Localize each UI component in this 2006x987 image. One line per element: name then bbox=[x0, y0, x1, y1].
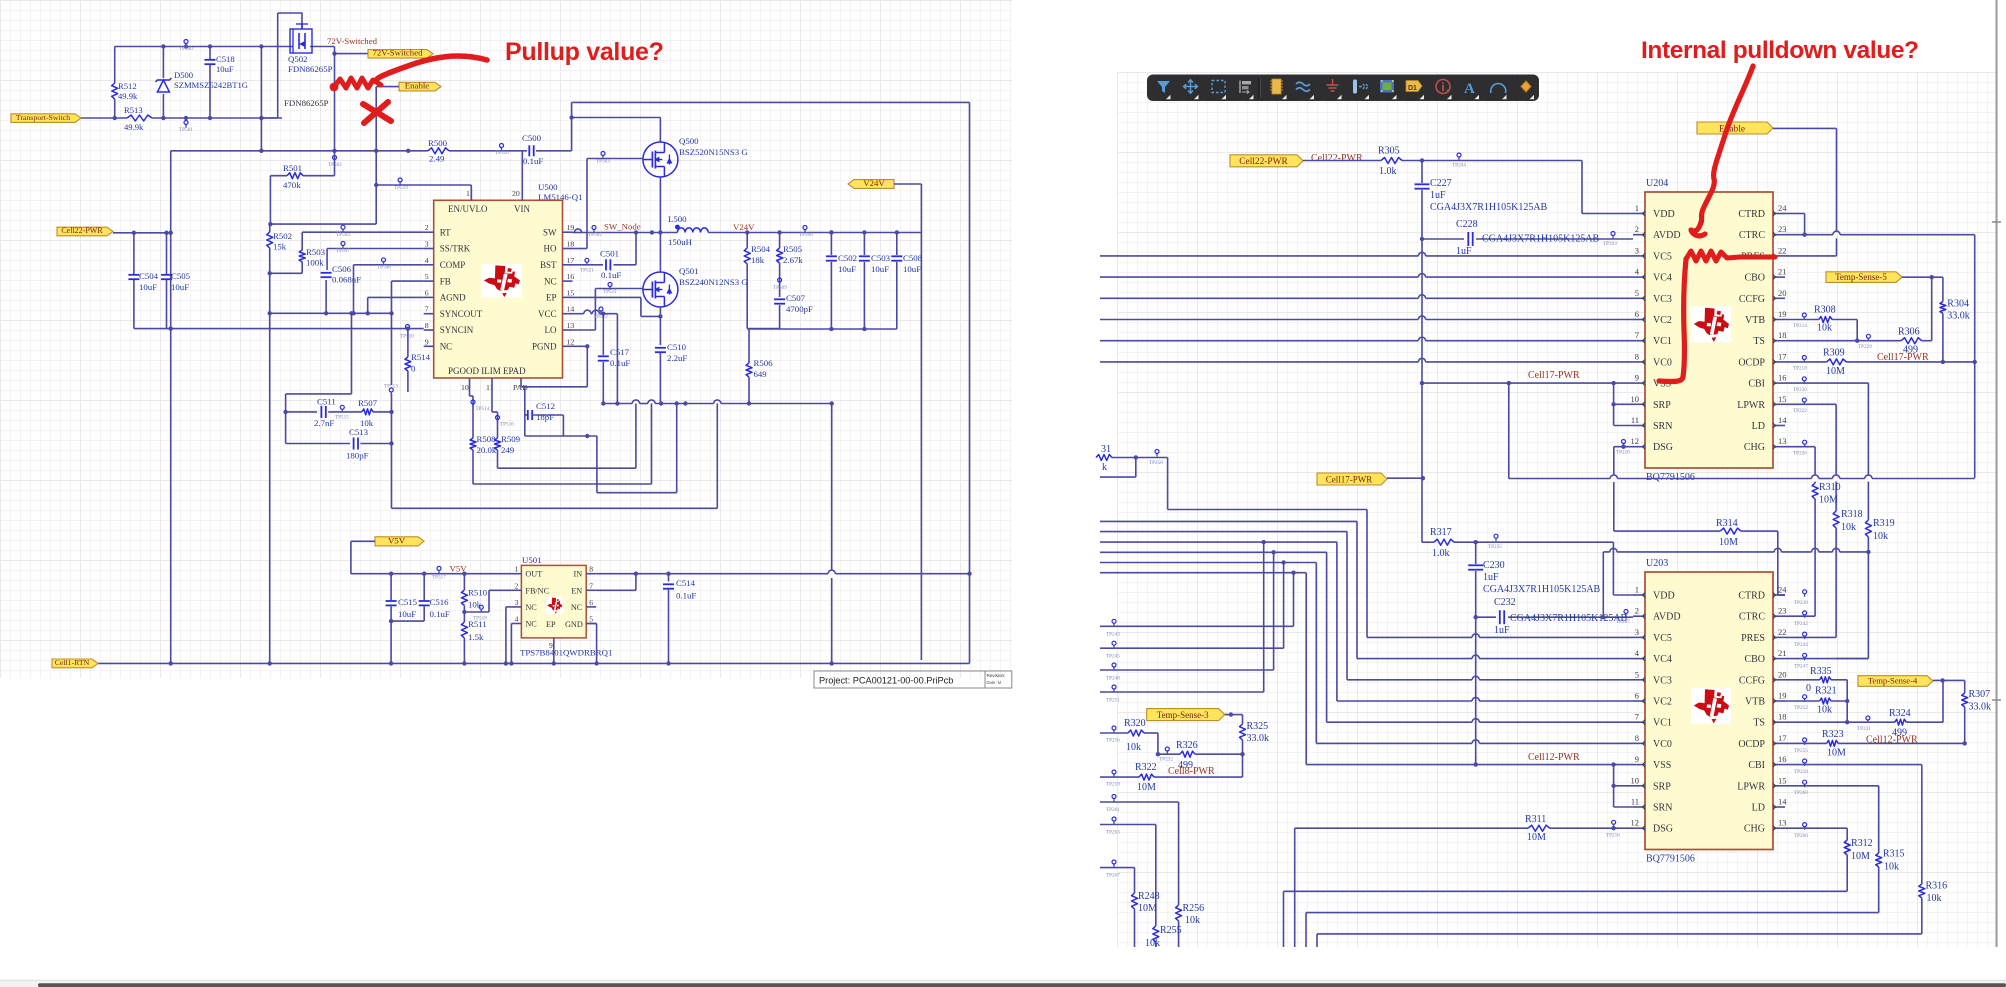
svg-text:C501: C501 bbox=[600, 249, 619, 259]
svg-text:U500: U500 bbox=[538, 182, 558, 192]
svg-text:TP248: TP248 bbox=[1106, 676, 1120, 682]
capacitor C503 bbox=[859, 233, 870, 332]
U500 top pins bbox=[448, 188, 530, 214]
svg-text:C511: C511 bbox=[317, 397, 336, 407]
label R513 bbox=[124, 105, 144, 132]
toolbar icon probe bbox=[1353, 80, 1369, 100]
resistor R505 bbox=[777, 233, 783, 298]
svg-text:5: 5 bbox=[589, 615, 593, 624]
svg-text:L500: L500 bbox=[668, 214, 687, 224]
svg-text:CHG: CHG bbox=[1744, 824, 1765, 835]
resistor R512 bbox=[112, 47, 118, 119]
svg-text:R312: R312 bbox=[1851, 838, 1873, 849]
svg-text:Revision:: Revision: bbox=[987, 673, 1006, 678]
wire AVDD row U203 bbox=[1474, 610, 1634, 624]
svg-text:VC5: VC5 bbox=[1653, 251, 1672, 262]
wire big loop right bbox=[969, 102, 971, 663]
svg-text:DSG: DSG bbox=[1653, 824, 1673, 835]
svg-text:CBO: CBO bbox=[1744, 273, 1765, 284]
title block bbox=[814, 671, 1012, 688]
wire C513 row bbox=[286, 438, 394, 450]
svg-text:8: 8 bbox=[425, 321, 429, 330]
svg-text:Cell8-PWR: Cell8-PWR bbox=[1168, 766, 1215, 777]
wire bottom rail3 bbox=[1317, 934, 1922, 947]
label C500 bbox=[522, 133, 543, 166]
svg-text:Pullup value?: Pullup value? bbox=[505, 38, 664, 66]
svg-text:R335: R335 bbox=[1810, 666, 1832, 677]
svg-text:VC3: VC3 bbox=[1653, 294, 1672, 305]
svg-text:TP250: TP250 bbox=[1149, 460, 1163, 466]
label R511 bbox=[468, 619, 487, 642]
label R307 bbox=[1969, 689, 1992, 713]
testpoint TP251 bbox=[1106, 685, 1120, 704]
capacitor C501 BST bbox=[573, 233, 637, 271]
resistor R323 bbox=[1827, 740, 1838, 746]
resistor R317 bbox=[1434, 539, 1454, 545]
label R502 bbox=[273, 231, 292, 252]
node V24V dots bbox=[745, 230, 899, 234]
svg-text:R502: R502 bbox=[273, 231, 292, 241]
svg-text:OCDP: OCDP bbox=[1738, 739, 1765, 750]
svg-text:SW_Node: SW_Node bbox=[604, 222, 641, 232]
svg-text:BSZ240N12NS3 G: BSZ240N12NS3 G bbox=[679, 277, 748, 287]
svg-text:7: 7 bbox=[425, 305, 429, 314]
resistor R248 bbox=[1132, 893, 1138, 947]
svg-text:VTB: VTB bbox=[1745, 315, 1765, 326]
label R500 bbox=[428, 138, 448, 164]
svg-text:Cell1-RTN: Cell1-RTN bbox=[55, 658, 90, 667]
svg-text:TP261: TP261 bbox=[1106, 807, 1120, 813]
diode D500 zener bbox=[155, 47, 171, 119]
testpoint TP501 bbox=[179, 121, 193, 134]
label R335 bbox=[1806, 666, 1832, 694]
wire cell22 row right bbox=[1303, 160, 1582, 162]
wire EN riser bbox=[596, 572, 638, 591]
svg-text:15k: 15k bbox=[273, 242, 287, 252]
svg-text:FB/NC: FB/NC bbox=[525, 586, 549, 595]
svg-text:16: 16 bbox=[567, 272, 575, 281]
svg-text:17: 17 bbox=[1778, 351, 1787, 361]
annotation text Internal pulldown value? bbox=[1641, 37, 1919, 64]
svg-text:R326: R326 bbox=[1176, 740, 1198, 751]
svg-text:14: 14 bbox=[567, 305, 575, 314]
svg-text:Cell17-PWR: Cell17-PWR bbox=[1326, 474, 1373, 484]
svg-text:R510: R510 bbox=[468, 588, 488, 598]
label C505 bbox=[171, 271, 191, 292]
svg-text:C510: C510 bbox=[667, 342, 687, 352]
svg-text:Project: PCA00121-00-00.PriPc: Project: PCA00121-00-00.PriPcb bbox=[819, 676, 953, 686]
svg-text:RT: RT bbox=[440, 227, 451, 237]
label C504 bbox=[139, 271, 159, 292]
wire PGND row bbox=[573, 344, 590, 348]
testpoint TP256 bbox=[1106, 726, 1120, 744]
net name V24V bbox=[733, 222, 755, 232]
testpoint TP259 bbox=[1106, 770, 1120, 788]
svg-text:1.0k: 1.0k bbox=[1432, 548, 1450, 559]
svg-text:TP517: TP517 bbox=[432, 575, 446, 581]
svg-text:6: 6 bbox=[1635, 309, 1639, 319]
wire nested loop 2 bbox=[473, 404, 652, 485]
wire rtn drops bbox=[171, 313, 270, 663]
svg-text:PGND: PGND bbox=[532, 342, 557, 352]
power flag Temp-Sense-5 bbox=[1826, 272, 1902, 283]
wire x831 drop bbox=[831, 404, 833, 664]
svg-text:R503: R503 bbox=[306, 247, 326, 257]
label R305 bbox=[1378, 146, 1400, 178]
svg-text:R248: R248 bbox=[1138, 891, 1160, 902]
label C227 bbox=[1430, 178, 1548, 213]
U204 TI logo bbox=[1691, 306, 1731, 342]
svg-text:18pF: 18pF bbox=[536, 412, 554, 422]
net name Cell12-PWR TS bbox=[1866, 735, 1918, 746]
svg-text:10k: 10k bbox=[1927, 893, 1942, 904]
label U204 designator bbox=[1646, 178, 1668, 189]
svg-text:CTRD: CTRD bbox=[1738, 591, 1765, 602]
wire x277 gate drop bbox=[277, 47, 279, 119]
wire R503 loop bbox=[268, 232, 424, 275]
svg-text:R315: R315 bbox=[1883, 849, 1905, 860]
svg-text:TP266: TP266 bbox=[1794, 833, 1808, 839]
svg-text:15: 15 bbox=[1778, 775, 1787, 785]
svg-text:10k: 10k bbox=[1817, 705, 1832, 716]
svg-text:8: 8 bbox=[1635, 351, 1639, 361]
svg-text:10k: 10k bbox=[1873, 531, 1888, 542]
svg-text:GND: GND bbox=[565, 620, 583, 629]
label R256 bbox=[1183, 903, 1205, 926]
svg-text:LD: LD bbox=[1752, 421, 1765, 432]
svg-text:BQ7791506: BQ7791506 bbox=[1646, 854, 1695, 865]
svg-text:33.0k: 33.0k bbox=[1247, 733, 1270, 744]
label U500 designator bbox=[538, 182, 582, 202]
svg-text:U203: U203 bbox=[1646, 558, 1668, 569]
svg-text:TP251: TP251 bbox=[1106, 698, 1120, 704]
resistor R322 bbox=[1139, 774, 1154, 780]
label FDN86265P (2nd gate) bbox=[284, 98, 329, 108]
svg-text:24: 24 bbox=[1778, 203, 1787, 213]
svg-text:CGA4J3X7R1H105K125AB: CGA4J3X7R1H105K125AB bbox=[1482, 234, 1600, 245]
svg-text:R311: R311 bbox=[1525, 814, 1546, 825]
label U204 part number bbox=[1646, 472, 1695, 483]
svg-text:SRN: SRN bbox=[1653, 421, 1672, 432]
annotation X mark bbox=[363, 102, 391, 123]
label L500 bbox=[668, 214, 693, 247]
wire Enable drop bbox=[376, 87, 399, 225]
svg-text:R305: R305 bbox=[1378, 146, 1400, 157]
svg-text:10uF: 10uF bbox=[171, 282, 189, 292]
svg-text:7: 7 bbox=[1635, 712, 1639, 722]
wire VSS sense rail bbox=[1509, 475, 1975, 479]
wire AVDD row bbox=[1420, 232, 1633, 246]
svg-text:C227: C227 bbox=[1430, 178, 1452, 189]
svg-text:OCDP: OCDP bbox=[1738, 357, 1765, 368]
svg-text:13: 13 bbox=[1778, 436, 1787, 446]
svg-text:72V-Switched: 72V-Switched bbox=[372, 48, 423, 58]
testpoint TP518 bbox=[473, 605, 487, 621]
testpoint TP226 bbox=[1793, 440, 1807, 456]
U500 bottom pins bbox=[448, 366, 528, 392]
wire CBI row U204 bbox=[1785, 383, 1868, 520]
power flag Transport-Switch bbox=[11, 113, 81, 123]
toolbar icon move bbox=[1184, 80, 1199, 100]
svg-text:Temp-Sense-4: Temp-Sense-4 bbox=[1868, 676, 1918, 686]
testpoint TP514 bbox=[471, 400, 490, 412]
label R501 bbox=[283, 163, 302, 190]
svg-text:CTRC: CTRC bbox=[1739, 612, 1765, 623]
bottom scrollbar bbox=[0, 980, 2006, 987]
svg-text:2.7nF: 2.7nF bbox=[314, 418, 334, 428]
wire EN feed bbox=[374, 183, 471, 200]
testpoint TP267 stub bbox=[1100, 860, 1135, 893]
wire TS row bbox=[1785, 277, 1932, 343]
wire R314 row bbox=[1614, 447, 1785, 595]
svg-text:Internal pulldown value?: Internal pulldown value? bbox=[1641, 37, 1919, 64]
svg-text:Date: M: Date: M bbox=[987, 680, 1002, 685]
svg-text:10M: 10M bbox=[1851, 851, 1870, 862]
svg-text:LM5146-Q1: LM5146-Q1 bbox=[538, 192, 582, 202]
svg-text:1: 1 bbox=[466, 189, 470, 198]
resistor R309 bbox=[1827, 359, 1847, 365]
power flag Cell1-RTN bbox=[52, 658, 98, 668]
testpoint TP507 bbox=[336, 242, 350, 255]
svg-text:C518: C518 bbox=[216, 54, 235, 64]
svg-text:13: 13 bbox=[567, 321, 575, 330]
wire VSS row U203 bbox=[1306, 762, 1633, 766]
capacitor C505 bbox=[161, 233, 172, 329]
testpoint TP231 bbox=[1857, 716, 1871, 732]
svg-text:TP218: TP218 bbox=[1793, 366, 1807, 372]
svg-text:23: 23 bbox=[1778, 606, 1787, 616]
svg-text:1uF: 1uF bbox=[1494, 625, 1510, 636]
power flag V5V bbox=[375, 535, 424, 546]
node R305 junction bbox=[1420, 158, 1424, 162]
wire Q500 source bbox=[659, 177, 661, 233]
label Q502 bbox=[288, 54, 333, 74]
label R509 bbox=[501, 434, 521, 455]
svg-text:R322: R322 bbox=[1135, 762, 1157, 773]
svg-text:TP242: TP242 bbox=[1794, 621, 1808, 627]
svg-text:Cell12-PWR: Cell12-PWR bbox=[1528, 752, 1580, 763]
testpoint TP511 bbox=[603, 283, 617, 296]
svg-text:R514: R514 bbox=[411, 352, 431, 362]
svg-text:31: 31 bbox=[1101, 444, 1111, 455]
svg-text:TP252: TP252 bbox=[1794, 705, 1808, 711]
svg-text:R309: R309 bbox=[1823, 348, 1845, 359]
svg-text:72V-Switched: 72V-Switched bbox=[327, 36, 378, 46]
label R311 bbox=[1525, 814, 1546, 843]
wire cell22 row bbox=[113, 233, 171, 329]
label R317 bbox=[1430, 527, 1452, 559]
svg-text:R308: R308 bbox=[1814, 305, 1836, 316]
testpoint TP250 bbox=[1149, 450, 1163, 467]
resistor R308 bbox=[1819, 317, 1832, 323]
U501 pins bbox=[511, 565, 596, 629]
resistor R320 bbox=[1128, 730, 1144, 736]
label R326 bbox=[1176, 740, 1198, 771]
svg-text:0.1uF: 0.1uF bbox=[430, 609, 450, 619]
svg-text:10: 10 bbox=[1631, 394, 1640, 404]
testpoint TP504 bbox=[336, 225, 350, 238]
svg-text:TP509: TP509 bbox=[773, 285, 787, 291]
svg-text:BSZ520N15NS3 G: BSZ520N15NS3 G bbox=[679, 147, 748, 157]
testpoint TP521 bbox=[580, 258, 594, 273]
resistor R510 bbox=[461, 574, 467, 612]
svg-text:10M: 10M bbox=[1719, 537, 1738, 548]
testpoint TP210 bbox=[1616, 440, 1630, 456]
svg-text:R317: R317 bbox=[1430, 527, 1452, 538]
net name Cell22-PWR bbox=[1311, 153, 1363, 164]
wire AVDD drop U203 bbox=[1475, 617, 1477, 764]
wire CHG U203 bbox=[1785, 828, 1847, 840]
svg-text:TP506: TP506 bbox=[799, 232, 813, 238]
svg-text:R507: R507 bbox=[358, 398, 378, 408]
wire nested loop 3 bbox=[597, 404, 677, 493]
wire x170.7 riser bbox=[169, 149, 264, 235]
annotation vertical stroke bbox=[1659, 259, 1686, 382]
svg-text:10M: 10M bbox=[1826, 366, 1845, 377]
testpoint TP242 bbox=[1794, 611, 1808, 627]
svg-text:TP244: TP244 bbox=[1794, 642, 1808, 648]
svg-text:TP500: TP500 bbox=[179, 46, 193, 52]
toolbar icon sheet part bbox=[1380, 80, 1397, 99]
resistor R324 bbox=[1895, 719, 1906, 725]
svg-text:SW: SW bbox=[543, 227, 557, 237]
label C508 bbox=[903, 253, 923, 274]
left schematic grid background bbox=[0, 0, 1012, 678]
annotation long curve bbox=[1701, 66, 1753, 223]
wire fragment R331 bbox=[1096, 444, 1168, 510]
testpoint TP506 bbox=[799, 226, 813, 239]
wire DSG U204 bbox=[1614, 445, 1633, 449]
svg-text:DSG: DSG bbox=[1653, 442, 1673, 453]
svg-text:2: 2 bbox=[515, 581, 519, 590]
svg-text:C500: C500 bbox=[522, 133, 542, 143]
label R508 bbox=[477, 434, 497, 455]
svg-text:Q501: Q501 bbox=[679, 266, 699, 276]
svg-text:VC3: VC3 bbox=[1653, 675, 1672, 686]
label R506 bbox=[754, 358, 774, 379]
resistor R315 bbox=[1876, 853, 1882, 913]
resistor R316 bbox=[1919, 884, 1925, 934]
wire COMP row bbox=[354, 265, 424, 314]
label R312 bbox=[1851, 838, 1873, 862]
wire AVDD drop x1422 bbox=[1421, 239, 1423, 543]
U203 TI logo bbox=[1691, 688, 1731, 724]
svg-text:TP245: TP245 bbox=[1106, 654, 1120, 660]
wire HO to gate bbox=[573, 159, 643, 249]
testpoint TP515 bbox=[335, 405, 349, 420]
svg-text:C506: C506 bbox=[332, 264, 352, 274]
svg-text:D500: D500 bbox=[174, 70, 193, 80]
node rail118 dots bbox=[113, 116, 264, 120]
wire SSTRK row bbox=[327, 249, 424, 271]
toolbar icon polygon bbox=[1521, 81, 1534, 99]
svg-text:TP507: TP507 bbox=[336, 248, 350, 254]
capacitor C512 loop bbox=[525, 387, 597, 438]
svg-text:4: 4 bbox=[1635, 267, 1640, 277]
resistor R504 bbox=[744, 233, 750, 329]
svg-text:R255: R255 bbox=[1160, 925, 1182, 936]
svg-text:NC: NC bbox=[525, 603, 537, 612]
resistor R502 bbox=[267, 232, 273, 248]
svg-text:SYNCIN: SYNCIN bbox=[440, 325, 474, 335]
resistor R314 bbox=[1720, 528, 1741, 534]
label R505 bbox=[783, 244, 803, 265]
svg-text:12: 12 bbox=[1631, 818, 1640, 828]
label C512 bbox=[536, 401, 555, 422]
testpoint TP207 bbox=[1616, 610, 1630, 626]
svg-text:3: 3 bbox=[1635, 245, 1639, 255]
svg-text:10uF: 10uF bbox=[903, 264, 921, 274]
testpoint TP222 bbox=[1793, 398, 1807, 414]
annotation pres squiggle bbox=[1686, 251, 1775, 261]
svg-text:1uF: 1uF bbox=[1430, 190, 1446, 201]
svg-text:10: 10 bbox=[1631, 775, 1640, 785]
svg-text:VC5: VC5 bbox=[1653, 633, 1672, 644]
resistor R507 bbox=[362, 409, 394, 415]
svg-text:TP521: TP521 bbox=[580, 268, 594, 274]
svg-text:VC0: VC0 bbox=[1653, 357, 1672, 368]
svg-text:TP519: TP519 bbox=[394, 185, 408, 191]
node rtn dots bbox=[169, 661, 834, 665]
svg-text:10uF: 10uF bbox=[838, 264, 856, 274]
svg-text:TP243: TP243 bbox=[1106, 632, 1120, 638]
label R319 bbox=[1873, 518, 1895, 542]
testpoint TP239 bbox=[1794, 590, 1808, 606]
svg-text:VC1: VC1 bbox=[1653, 718, 1672, 729]
svg-text:TP259: TP259 bbox=[1106, 782, 1120, 788]
annotation curve to squiggle bbox=[377, 56, 487, 79]
svg-text:5: 5 bbox=[425, 272, 429, 281]
svg-text:AVDD: AVDD bbox=[1653, 612, 1681, 623]
wire U501 NC drops bbox=[506, 607, 512, 664]
toolbar icon align bbox=[1240, 81, 1254, 100]
power flag 72V-Switched bbox=[368, 48, 433, 59]
svg-text:10uF: 10uF bbox=[139, 282, 157, 292]
svg-text:TP512: TP512 bbox=[594, 314, 608, 320]
svg-text:3: 3 bbox=[425, 240, 429, 249]
net name SW_Node bbox=[604, 222, 641, 232]
svg-text:R316: R316 bbox=[1926, 881, 1948, 892]
svg-text:TP214: TP214 bbox=[1793, 323, 1807, 329]
toolbar icon designator tag bbox=[1406, 81, 1424, 100]
svg-text:CHG: CHG bbox=[1744, 442, 1765, 453]
wire Cell1-RTN rail bbox=[98, 662, 970, 664]
svg-text:NC: NC bbox=[525, 620, 537, 629]
svg-text:CGA4J3X7R1H105K125AB: CGA4J3X7R1H105K125AB bbox=[1483, 584, 1601, 595]
testpoint TP263 stub bbox=[1100, 817, 1156, 926]
svg-text:0.1uF: 0.1uF bbox=[601, 270, 621, 280]
testpoint TP204 bbox=[1452, 153, 1466, 169]
svg-text:BST: BST bbox=[540, 260, 557, 270]
node 72V rail dots bbox=[161, 44, 263, 48]
wire VTB row bbox=[1785, 320, 1857, 341]
svg-text:0: 0 bbox=[411, 364, 416, 374]
wire PGOOD col bbox=[470, 378, 474, 438]
svg-text:EN: EN bbox=[571, 586, 582, 595]
svg-text:C504: C504 bbox=[139, 271, 159, 281]
svg-text:3: 3 bbox=[1635, 627, 1639, 637]
svg-text:VC0: VC0 bbox=[1653, 739, 1672, 750]
svg-text:10k: 10k bbox=[1817, 323, 1832, 334]
label R310 bbox=[1819, 482, 1841, 506]
wire FB col bbox=[389, 281, 423, 315]
svg-text:PGOOD ILIM EPAD: PGOOD ILIM EPAD bbox=[448, 366, 526, 376]
svg-text:10k: 10k bbox=[1126, 742, 1141, 753]
svg-text:24: 24 bbox=[1778, 585, 1787, 595]
resistor R325 bbox=[1240, 724, 1246, 777]
svg-text:V24V: V24V bbox=[733, 222, 755, 232]
svg-text:49.9k: 49.9k bbox=[118, 91, 138, 101]
